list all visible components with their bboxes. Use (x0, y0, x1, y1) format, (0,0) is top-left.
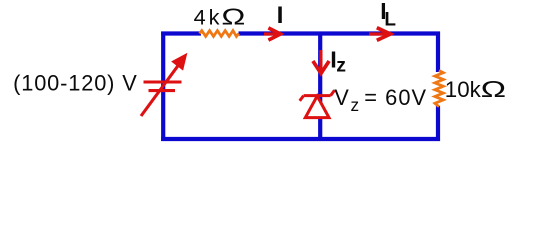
label: Vz = 60V (334, 85, 427, 115)
wire: right vertical upper (to R2) (436, 32, 440, 73)
svg-text:4: 4 (194, 5, 206, 30)
label: current I (277, 2, 284, 29)
zener diode D1: triangle (anode, white fill) (305, 96, 329, 118)
svg-text:k: k (209, 5, 220, 30)
wire: bottom segment (161, 137, 440, 141)
wire: top segment (R1 to right corner) (239, 31, 441, 35)
svg-text:I: I (277, 2, 284, 29)
svg-text:(100-120) V: (100-120) V (13, 71, 137, 96)
current arrow I (on top wire): shaft (264, 32, 280, 35)
wire: left vertical (source branch) (161, 32, 165, 142)
label: 4 kOhm value of R1 (194, 4, 246, 30)
wire: middle vertical (zener branch) (318, 34, 322, 140)
zener diode D1: cathode right bent tip (331, 90, 335, 95)
svg-text:= 60V: = 60V (364, 85, 427, 110)
svg-text:10k: 10k (445, 77, 482, 102)
resistor R2 10kOhm (vertical zigzag) (435, 71, 443, 107)
svg-text:z: z (336, 55, 346, 77)
source V1: variability arrow shaft (141, 56, 185, 116)
label: 10kOhm value of R2 (445, 76, 506, 102)
source V1: variability arrowhead (173, 54, 187, 69)
current arrow I: open V head (268, 28, 280, 40)
svg-text:Ω: Ω (481, 76, 507, 102)
svg-text:V: V (334, 85, 349, 110)
svg-text:Ω: Ω (221, 4, 245, 30)
current arrow IL (top right wire): shaft (369, 32, 390, 35)
label: current Iz (330, 47, 346, 77)
label: (100-120) V (13, 71, 137, 96)
svg-text:z: z (351, 95, 360, 115)
zener diode D1: cathode left bent tip (300, 96, 304, 101)
current arrow IL: open V head (377, 28, 391, 41)
source V1: lower bar (149, 89, 176, 92)
label: current IL (380, 0, 396, 30)
current arrow Iz: open V head (313, 61, 329, 73)
current arrow Iz (zener branch): shaft (319, 50, 322, 73)
wire: top-left segment (source to R1) (161, 31, 201, 35)
svg-text:L: L (384, 9, 396, 30)
source V1 variable (100-120)V : upper bar (144, 80, 182, 83)
zener diode D1: cathode bar (304, 94, 331, 97)
wire: right vertical lower (from R2) (436, 106, 440, 141)
resistor R1 4kOhm (horizontal zigzag) (200, 31, 239, 37)
